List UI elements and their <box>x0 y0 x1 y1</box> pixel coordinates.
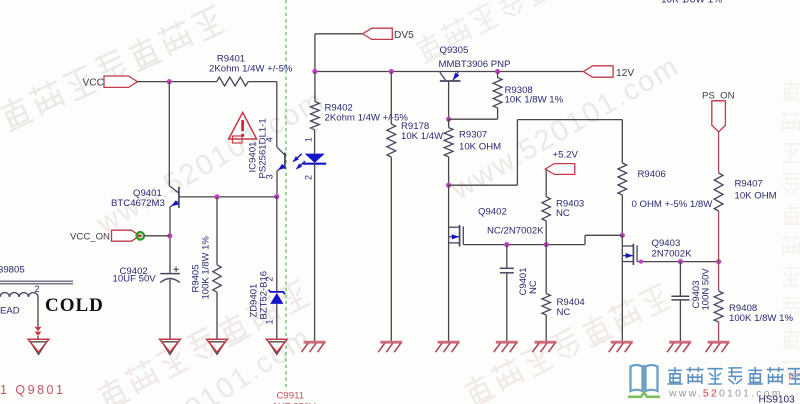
svg-text:BTC4672M3: BTC4672M3 <box>111 198 165 209</box>
svg-text:10K OHM: 10K OHM <box>735 191 777 202</box>
svg-text:NC/2N7002K: NC/2N7002K <box>487 226 544 237</box>
svg-text:R9406: R9406 <box>638 169 666 180</box>
svg-text:2Kohm 1/4W +/-5%: 2Kohm 1/4W +/-5% <box>325 112 409 123</box>
svg-text:10K 1/8W 1%: 10K 1/8W 1% <box>661 0 722 6</box>
svg-text:COLD: COLD <box>45 295 104 316</box>
svg-text:Q9403: Q9403 <box>652 238 681 249</box>
svg-text:C9911: C9911 <box>277 390 305 401</box>
svg-text:1: 1 <box>264 319 274 324</box>
svg-text:PS_ON: PS_ON <box>702 90 735 101</box>
svg-text:NC: NC <box>557 307 571 318</box>
svg-text:39805: 39805 <box>0 265 25 276</box>
svg-text:10K 1/4W: 10K 1/4W <box>401 131 444 142</box>
svg-text:R9307: R9307 <box>459 130 487 141</box>
svg-text:2: 2 <box>35 284 40 294</box>
svg-text:EAD: EAD <box>0 306 20 317</box>
svg-text:MMBT3906 PNP: MMBT3906 PNP <box>439 59 511 70</box>
svg-text:0 OHM +-5% 1/8W: 0 OHM +-5% 1/8W <box>632 199 714 210</box>
svg-text:2: 2 <box>304 175 314 180</box>
svg-text:1: 1 <box>304 137 314 142</box>
svg-text:PS2561DL1-1: PS2561DL1-1 <box>258 118 269 178</box>
svg-text:1 Q9801: 1 Q9801 <box>0 383 65 397</box>
svg-text:R9404: R9404 <box>557 297 586 308</box>
svg-text:10K 1/8W 1%: 10K 1/8W 1% <box>505 95 564 106</box>
svg-text:2: 2 <box>264 276 274 281</box>
svg-text:Q9402: Q9402 <box>478 207 507 218</box>
svg-text:+5.2V: +5.2V <box>553 150 579 161</box>
svg-text:VCC_ON: VCC_ON <box>70 232 110 243</box>
svg-text:R9407: R9407 <box>735 178 763 189</box>
svg-text:10UF 50V: 10UF 50V <box>113 274 157 285</box>
svg-text:100N 50V: 100N 50V <box>700 268 711 311</box>
svg-text:NC: NC <box>528 280 539 294</box>
svg-text:NC: NC <box>556 208 570 219</box>
svg-text:Q9305: Q9305 <box>440 45 469 56</box>
svg-text:100K 1/8W 1%: 100K 1/8W 1% <box>729 313 793 324</box>
svg-text:DV5: DV5 <box>394 30 414 41</box>
svg-text:10K OHM: 10K OHM <box>459 142 501 153</box>
svg-text:4: 4 <box>265 137 275 142</box>
svg-text:VCC: VCC <box>83 78 105 89</box>
svg-text:2N7002K: 2N7002K <box>652 248 693 259</box>
svg-text:12V: 12V <box>616 68 634 79</box>
svg-text:HS9103: HS9103 <box>759 395 796 404</box>
svg-text:3: 3 <box>265 174 275 179</box>
svg-text:100K 1/8W 1%: 100K 1/8W 1% <box>200 236 211 300</box>
svg-text:2Kohm 1/4W +/-5%: 2Kohm 1/4W +/-5% <box>209 63 293 74</box>
